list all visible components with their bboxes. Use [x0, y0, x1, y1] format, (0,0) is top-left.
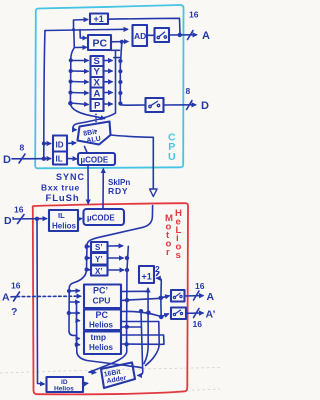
svg-text:Y: Y: [94, 67, 101, 78]
svg-text:2: 2: [155, 264, 160, 274]
svg-text:16: 16: [189, 10, 199, 20]
svg-text:Helios: Helios: [89, 321, 114, 330]
svg-text:Y’: Y’: [95, 255, 103, 264]
svg-text:Helios: Helios: [89, 343, 114, 352]
svg-text:r: r: [166, 247, 170, 258]
svg-text:Helios: Helios: [54, 386, 74, 393]
svg-text:IL: IL: [56, 155, 63, 164]
svg-text:8: 8: [20, 143, 25, 153]
svg-text:+1: +1: [142, 272, 152, 282]
svg-text:16: 16: [11, 281, 21, 291]
svg-text:µCODE: µCODE: [81, 156, 109, 165]
svg-text:X’: X’: [95, 267, 103, 276]
svg-text:FLuSh: FLuSh: [46, 193, 80, 204]
svg-text:16: 16: [193, 319, 203, 329]
svg-text:S’: S’: [95, 243, 103, 252]
svg-text:tmp: tmp: [91, 332, 107, 342]
svg-text:D: D: [3, 154, 11, 166]
svg-text:Helios: Helios: [52, 222, 77, 231]
svg-text:s: s: [176, 250, 181, 261]
svg-text:A: A: [202, 30, 210, 42]
svg-text:IL: IL: [58, 211, 65, 220]
svg-text:+1: +1: [94, 14, 104, 24]
svg-text:CPU: CPU: [93, 296, 111, 306]
svg-text:AD: AD: [134, 31, 146, 41]
svg-text:S: S: [94, 56, 100, 67]
svg-text:PC’: PC’: [93, 286, 108, 296]
svg-text:P: P: [94, 101, 101, 112]
svg-text:A’: A’: [206, 309, 216, 321]
svg-text:16: 16: [195, 281, 205, 291]
svg-text:µCODE: µCODE: [87, 214, 115, 223]
svg-text:16: 16: [14, 205, 24, 215]
svg-text:ID: ID: [56, 141, 64, 150]
svg-text:PC: PC: [93, 38, 108, 50]
svg-text:A: A: [94, 89, 101, 100]
svg-text:Bxx true: Bxx true: [41, 183, 80, 193]
svg-text:A: A: [207, 291, 215, 303]
svg-text:SYNC: SYNC: [56, 172, 85, 182]
svg-text:RDY: RDY: [108, 186, 128, 196]
svg-text:A: A: [2, 292, 10, 304]
svg-text:X: X: [94, 78, 101, 89]
svg-text:8: 8: [186, 86, 191, 96]
svg-text:D: D: [201, 100, 209, 112]
svg-text:D’: D’: [4, 215, 15, 227]
svg-text:U: U: [168, 151, 176, 163]
svg-text:?: ?: [11, 306, 17, 318]
svg-text:PC: PC: [96, 310, 109, 320]
